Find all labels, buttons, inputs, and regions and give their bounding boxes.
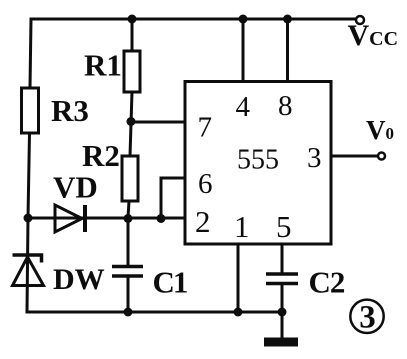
svg-text:555: 555 bbox=[237, 145, 279, 176]
svg-text:DW: DW bbox=[53, 263, 105, 296]
wire pin 4 bbox=[242, 19, 245, 82]
ground bbox=[264, 338, 298, 347]
capacitor C2 plates bbox=[266, 274, 298, 284]
svg-text:7: 7 bbox=[198, 112, 213, 144]
resistor R2 bbox=[122, 156, 138, 201]
junction top pin8 bbox=[283, 15, 292, 24]
wire pin 7 bbox=[131, 121, 185, 124]
wire VD / pin2 line bbox=[28, 217, 185, 220]
svg-text:4: 4 bbox=[236, 91, 251, 123]
junction pin5 ground bbox=[278, 308, 287, 317]
svg-text:R2: R2 bbox=[82, 138, 120, 173]
capacitor C1 plates bbox=[112, 267, 143, 277]
wire pin 5 / C2 bbox=[281, 244, 284, 312]
svg-text:6: 6 bbox=[198, 168, 213, 200]
wire pin 6 bbox=[161, 178, 185, 218]
junction top pin4 bbox=[239, 15, 248, 24]
svg-text:C2: C2 bbox=[309, 265, 345, 300]
terminal Vo circle bbox=[378, 153, 385, 160]
svg-text:2: 2 bbox=[195, 204, 211, 239]
svg-text:V0: V0 bbox=[366, 115, 394, 145]
junction pin1 bottom bbox=[234, 308, 243, 317]
op IC 555 box U1 bbox=[185, 82, 331, 245]
wire pin 1 bbox=[237, 244, 240, 312]
wire R1 R2 column bbox=[128, 19, 132, 218]
svg-text:8: 8 bbox=[278, 90, 293, 122]
junction R1 R2 pin7 bbox=[127, 117, 136, 126]
svg-text:VD: VD bbox=[53, 170, 98, 205]
figure number circled 3 bbox=[350, 300, 383, 333]
wire pin 3 output bbox=[331, 155, 378, 158]
terminal Vcc circle bbox=[356, 16, 364, 24]
wire bottom rail bbox=[27, 311, 283, 314]
junction left VD bbox=[24, 214, 33, 223]
junction top R1 bbox=[128, 15, 137, 24]
junction C1 bottom bbox=[124, 308, 133, 317]
wire C1 vertical bbox=[127, 218, 130, 312]
svg-text:3: 3 bbox=[307, 142, 322, 174]
wire left branch vertical bbox=[27, 19, 31, 312]
svg-text:5: 5 bbox=[276, 209, 292, 244]
svg-text:C1: C1 bbox=[153, 265, 187, 300]
junction pin6 pin2 bbox=[157, 214, 166, 223]
svg-text:1: 1 bbox=[234, 209, 250, 244]
svg-text:R1: R1 bbox=[84, 48, 122, 83]
junction R2 C1 bbox=[124, 214, 133, 223]
wire pin 8 bbox=[286, 19, 289, 82]
resistor R3 bbox=[22, 88, 39, 133]
resistor R1 bbox=[124, 51, 140, 92]
diode VD bbox=[55, 205, 85, 232]
svg-text:VCC: VCC bbox=[348, 19, 399, 52]
zener diode DW bbox=[13, 255, 44, 286]
svg-text:R3: R3 bbox=[51, 93, 89, 128]
wire top rail bbox=[31, 18, 356, 21]
svg-text:3: 3 bbox=[359, 300, 376, 336]
wire ground stub bbox=[281, 312, 284, 337]
